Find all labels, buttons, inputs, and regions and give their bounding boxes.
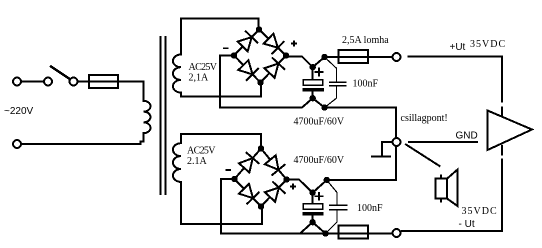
- node star feed: [324, 177, 330, 183]
- wire (+rail into amp): [501, 108, 503, 116]
- transformer secondary 1 winding: [173, 55, 181, 93]
- wire: [78, 81, 144, 83]
- diode D6: [265, 155, 285, 175]
- svg-text:35VDC: 35VDC: [462, 206, 498, 217]
- svg-text:4700uF/60V: 4700uF/60V: [294, 155, 345, 166]
- svg-text:AC25V: AC25V: [189, 62, 218, 73]
- wire (fuse F3 through): [326, 233, 392, 235]
- wire (BR2 minus rail to fuse): [221, 179, 326, 234]
- wire (secondary2 bottom to bridge AC): [181, 182, 262, 224]
- wire (C3 bottom diagonals): [300, 222, 326, 233]
- svg-text:2,5A lomha: 2,5A lomha: [342, 35, 389, 46]
- transformer secondary 2 winding: [173, 143, 181, 182]
- wire (secondary1 bottom to bridge AC): [181, 83, 261, 97]
- diode D7: [239, 184, 259, 204]
- capacitor C2 100nF plates: [330, 81, 346, 83]
- svg-text:100nF: 100nF: [357, 203, 383, 214]
- label BR2 minus: [227, 169, 231, 171]
- node C3 top: [309, 190, 315, 196]
- node BR2 right: [283, 176, 289, 182]
- node C3 bottom: [309, 219, 315, 225]
- svg-text:AC25V: AC25V: [187, 146, 216, 157]
- node star point (csillagpont): [393, 138, 401, 146]
- svg-text:- Ut: - Ut: [459, 219, 475, 230]
- op-amp / amplifier triangle U1: [488, 111, 533, 151]
- wire (-rail into amp): [501, 146, 503, 155]
- wire (+rail to amp): [409, 57, 503, 102]
- node BR1 left: [231, 52, 237, 58]
- node C1 top: [310, 64, 316, 70]
- wire (BR1 plus to C1): [286, 57, 339, 68]
- terminal J2 (mains bottom): [13, 140, 21, 148]
- node BR2 left: [231, 176, 237, 182]
- node minus rail: [321, 104, 327, 110]
- wire (C1 stubs): [312, 67, 314, 80]
- wire (star to speaker): [406, 145, 440, 167]
- svg-text:2.1A: 2.1A: [187, 156, 208, 167]
- label BR1 minus: [224, 47, 228, 49]
- speaker LS1: [435, 170, 457, 207]
- label C3 plus: [316, 193, 323, 200]
- switch throw node: [70, 78, 78, 86]
- fuse F3: [339, 225, 369, 238]
- wire (secondary2 top): [181, 134, 261, 149]
- bridge rectifier BR1 frame: [234, 30, 286, 83]
- capacitor C1 4700uF/60V: [303, 80, 323, 86]
- node BR1 right: [283, 52, 289, 58]
- wire: [22, 81, 44, 83]
- diode D8: [265, 182, 285, 202]
- svg-text:GND: GND: [456, 131, 478, 142]
- transformer core: [160, 37, 162, 194]
- svg-text:~220V: ~220V: [4, 106, 34, 117]
- wire (fuse F2 through): [339, 56, 392, 58]
- label C1 plus: [316, 69, 323, 76]
- fuse F1 (mains): [89, 75, 118, 88]
- node BR1 bottom: [257, 79, 263, 85]
- capacitor C3 4700uF/60V: [303, 204, 323, 210]
- bridge rectifier BR2 frame: [235, 149, 287, 207]
- wire (C3 stubs): [312, 193, 314, 204]
- wire (primary top lead): [143, 82, 145, 101]
- diode D4: [264, 58, 284, 78]
- wire (-rail to amp): [402, 160, 502, 232]
- switch pole node: [44, 78, 52, 86]
- svg-text:4700uF/60V: 4700uF/60V: [294, 117, 345, 128]
- transformer primary winding: [144, 101, 151, 133]
- ground symbol: [382, 142, 392, 156]
- capacitor C2 100nF leads: [326, 58, 337, 82]
- wire (primary bottom lead): [22, 133, 144, 144]
- wire (BR1 minus rail to star): [220, 56, 396, 180]
- svg-text:35VDC: 35VDC: [470, 39, 506, 50]
- diode D5: [239, 153, 259, 173]
- wire (BR2 plus to C3): [287, 180, 397, 193]
- wire (GND to amp): [409, 141, 477, 143]
- switch S1 blade: [51, 67, 69, 79]
- terminal +Ut: [393, 53, 401, 61]
- svg-text:100nF: 100nF: [353, 79, 379, 90]
- terminal -Ut: [393, 229, 401, 237]
- label BR2 plus: [291, 184, 296, 189]
- node fuse2 feed: [322, 230, 328, 236]
- capacitor C4 100nF leads: [328, 181, 337, 205]
- svg-text:+Ut: +Ut: [450, 42, 466, 53]
- node BR2 bottom: [258, 203, 264, 209]
- terminal J1 (mains top): [13, 78, 21, 86]
- wire (secondary1 top): [181, 19, 259, 55]
- fuse F2 2,5A: [339, 50, 369, 63]
- svg-text:2,1A: 2,1A: [189, 73, 210, 84]
- node BR2 top: [258, 145, 264, 151]
- capacitor C4 100nF plates: [330, 204, 347, 206]
- node BR1 top: [256, 26, 262, 32]
- node fuse feed: [321, 54, 327, 60]
- diode D3: [238, 60, 258, 80]
- node C1 bottom: [310, 95, 316, 101]
- diode D1: [238, 32, 258, 52]
- svg-text:csillagpont!: csillagpont!: [401, 113, 448, 124]
- label BR1 plus: [292, 41, 297, 46]
- diode D2: [264, 34, 284, 54]
